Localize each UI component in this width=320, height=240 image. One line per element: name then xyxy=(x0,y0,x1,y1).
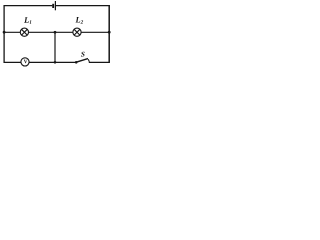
wire left vertical xyxy=(3,5,5,63)
wire top-right xyxy=(56,5,110,7)
switch S contact hook xyxy=(88,59,89,62)
wire middle center xyxy=(29,31,73,33)
wire bottom-right xyxy=(89,61,109,63)
wire right vertical xyxy=(108,5,110,63)
wire middle left xyxy=(4,31,20,33)
battery cell xyxy=(52,4,54,8)
wire bottom-left xyxy=(4,61,21,63)
wire bottom-middle xyxy=(29,61,75,63)
label V (voltmeter) xyxy=(24,60,28,64)
voltmeter V xyxy=(21,58,29,66)
node junction left xyxy=(3,31,6,34)
node junction middle-top xyxy=(54,31,57,34)
wire top-left xyxy=(4,5,53,7)
wire middle vertical xyxy=(54,32,56,62)
lamp L1 xyxy=(20,28,28,36)
wire middle right xyxy=(81,31,109,33)
node junction right xyxy=(108,31,111,34)
lamp L2 xyxy=(73,28,81,36)
node junction middle-bottom xyxy=(54,61,57,64)
label L1 xyxy=(24,17,31,24)
switch S blade xyxy=(76,59,88,63)
label L2 xyxy=(75,17,83,24)
label S xyxy=(81,52,85,57)
switch pivot dot xyxy=(75,61,78,64)
